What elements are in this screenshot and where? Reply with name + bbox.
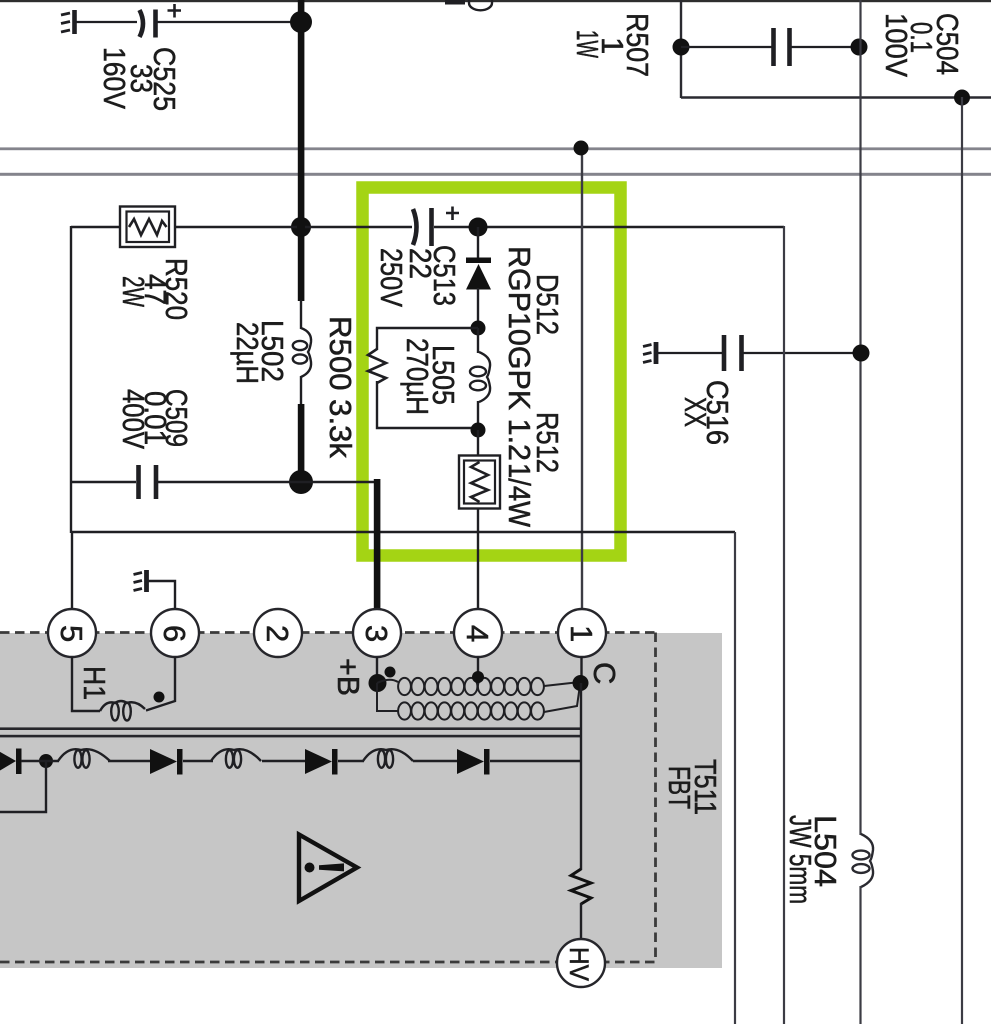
svg-text:R500 3.3k: R500 3.3k — [323, 316, 358, 458]
junction node (478,328) — [471, 321, 486, 336]
wire thin above L502 — [300, 300, 302, 329]
core line 2 — [0, 735, 581, 738]
vertical line x859 lower — [859, 886, 861, 1024]
FBT dashed border right — [654, 633, 657, 963]
junction node (859,47) — [851, 39, 868, 56]
pin circle 6 — [151, 609, 199, 657]
wire chain seg1 — [21, 760, 59, 762]
pin circle 4 — [454, 609, 502, 657]
wire node to D512 — [477, 227, 479, 259]
svg-text:R50711W: R50711W — [570, 13, 655, 77]
junction node (301,482) — [289, 470, 313, 494]
svg-text:6: 6 — [157, 625, 192, 642]
pin circle 3 — [353, 609, 401, 657]
winding polarity dot (H1) — [154, 692, 165, 703]
warning triangle — [299, 835, 357, 902]
wire chain seg6 — [413, 760, 458, 762]
HV series resistor zigzag — [571, 869, 591, 904]
svg-text:L505270µH: L505270µH — [400, 338, 461, 415]
highlight box (green) — [363, 188, 621, 556]
junction node (301,22) — [290, 11, 312, 33]
wire y227 left of R520 — [71, 226, 121, 228]
wire y97 — [681, 96, 991, 98]
thick vertical wire x301 upper — [298, 0, 305, 301]
resistor R520 (boxed) — [120, 207, 175, 248]
cropped component at top edge — [445, 0, 465, 5]
wire chain seg7 — [490, 760, 582, 762]
wire capacitor to node — [791, 46, 859, 48]
label C525 33 160V — [97, 47, 182, 111]
winding H1 wires — [72, 657, 175, 711]
pin circle 2 — [254, 609, 302, 657]
pin circle 1 — [558, 609, 606, 657]
horizontal bus line 1 — [0, 147, 991, 150]
label R512 1/4W — [502, 412, 565, 528]
wire tap down to left edge — [0, 761, 46, 812]
ground (C516) — [643, 342, 656, 364]
wire resistor to HV terminal — [580, 903, 582, 940]
svg-text:C51322250V: C51322250V — [374, 245, 462, 307]
wire y227 R520 to node — [175, 226, 297, 228]
capacitor (top right) — [774, 28, 790, 66]
svg-text:1: 1 — [564, 625, 599, 642]
label C509 0.01 400V — [116, 389, 194, 449]
diode D512 — [466, 258, 491, 290]
junction node (582,148) — [574, 141, 589, 156]
wire node to capacitor — [681, 46, 772, 48]
wire y482 node to +B bar — [301, 481, 378, 483]
top border wire — [0, 0, 991, 2]
wire pin1 to node — [580, 657, 582, 683]
wire pin5 riser — [71, 532, 73, 610]
wire y482 C509 to node — [158, 481, 301, 483]
svg-text:L504JW 5mm: L504JW 5mm — [783, 815, 843, 904]
label C516 XX — [678, 380, 735, 445]
svg-text:HV: HV — [564, 947, 594, 981]
label R507 1 1W — [570, 13, 655, 77]
label C504 0.1 100V — [879, 13, 965, 77]
wire y532 — [71, 531, 735, 533]
svg-text:L50222µH: L50222µH — [230, 320, 290, 384]
thick wire +B to pin 3 — [374, 479, 381, 610]
svg-text:3: 3 — [359, 625, 394, 642]
junction node (681,47) — [673, 39, 690, 56]
thick vertical wire x301 lower — [298, 404, 305, 483]
secondary diode 3 — [305, 749, 338, 775]
FBT dashed border top — [0, 631, 656, 634]
pin circle 5 — [48, 609, 96, 657]
core line 1 — [0, 727, 581, 730]
label C513 22 250V — [374, 245, 462, 307]
svg-text:C5040.1100V: C5040.1100V — [879, 13, 965, 77]
HV terminal circle — [557, 939, 605, 987]
secondary coil 1 — [58, 749, 110, 768]
junction node (962,97) — [954, 90, 970, 106]
wire thin below L502 — [300, 376, 302, 405]
label L504 JW 5mm — [783, 815, 843, 904]
horizontal bus line 2 — [0, 173, 991, 176]
label R500 3.3k — [323, 316, 358, 458]
primary winding row 1 — [377, 678, 580, 695]
winding polarity dot (primary) — [385, 667, 396, 678]
secondary diode (partial, left edge) — [0, 749, 22, 775]
winding H1 coil — [100, 701, 145, 721]
transformer T511 body gray fill — [0, 633, 722, 968]
wire pin3 to winding node — [376, 657, 378, 683]
inductor L505 coil — [470, 328, 490, 430]
inductor L502 coil — [293, 328, 311, 377]
junction node (478,677) — [472, 671, 484, 683]
svg-text:4: 4 — [460, 625, 495, 642]
label L502 22uH — [230, 320, 290, 384]
wire ground to C516 — [657, 352, 722, 354]
vertical line x784 — [783, 226, 785, 1024]
left vertical wire x71 — [70, 226, 72, 533]
svg-text:H1: H1 — [77, 666, 112, 700]
secondary diode 2 — [150, 749, 183, 775]
wire R512 to pin 4 — [477, 509, 479, 610]
wire D512 to node — [477, 288, 479, 329]
junction node (580,683) — [573, 675, 589, 691]
label L505 270uH — [400, 338, 461, 415]
HV line from winding node — [580, 683, 582, 870]
junction node (301,227) — [291, 217, 311, 237]
capacitor C509 — [139, 465, 157, 499]
svg-text:T511FBT: T511FBT — [662, 759, 723, 815]
label HV — [564, 947, 594, 981]
wire C525 to node — [157, 21, 299, 23]
wire C516 to node — [743, 352, 861, 354]
wire chain seg4 — [262, 760, 306, 762]
wire y482 left — [71, 481, 136, 483]
vertical line x859 upper — [859, 0, 861, 835]
label R520 47 2W — [116, 258, 194, 320]
svg-text:5: 5 — [54, 625, 89, 642]
vertical line x735 — [734, 532, 736, 1024]
junction node (861,353) — [853, 345, 870, 362]
wire chain seg2 — [108, 760, 151, 762]
vertical wire x681 — [680, 0, 682, 98]
capacitor C525 (polarized) — [140, 4, 182, 38]
inductor L504 coil — [853, 834, 874, 887]
vertical wire x582 bus to pin 1 — [581, 148, 583, 610]
ground (top left) — [61, 10, 75, 34]
ground (pin 6) — [134, 570, 147, 592]
vertical line x962 — [961, 97, 963, 1024]
label T511 FBT — [662, 759, 723, 815]
wire y227 node to C513 — [305, 226, 412, 228]
damping resistor zigzag — [368, 349, 386, 383]
svg-text:C5090.01400V: C5090.01400V — [116, 389, 194, 449]
wire y227 C513 to x784 corner — [434, 226, 784, 228]
wire ground to C525 — [76, 21, 137, 23]
svg-text:2: 2 — [260, 625, 295, 642]
warning exclamation — [305, 863, 315, 873]
junction node (478,227) — [469, 218, 488, 237]
svg-text:C52533160V: C52533160V — [97, 47, 182, 111]
junction node (478,430) — [471, 423, 486, 438]
primary winding row 2 — [377, 683, 580, 720]
wire pin4 tap — [477, 657, 479, 676]
resistor R512 (boxed) — [459, 456, 500, 509]
svg-text:+B: +B — [331, 658, 366, 696]
label H1 — [77, 666, 112, 700]
svg-text:C516XX: C516XX — [678, 380, 735, 445]
wire node to R512 — [477, 430, 479, 456]
label +B — [331, 658, 366, 696]
junction node (377,683) — [369, 674, 387, 692]
svg-text:R520472W: R520472W — [116, 258, 194, 320]
junction node (46,761) — [39, 754, 53, 768]
wire chain seg5 — [338, 760, 364, 762]
FBT dashed border bottom — [0, 961, 656, 964]
secondary coil 2 — [211, 749, 261, 768]
wire ground to pin 6 — [148, 581, 175, 610]
svg-text:C: C — [587, 662, 622, 684]
capacitor C513 (polarized) — [413, 207, 459, 247]
secondary coil 3 — [363, 749, 413, 768]
capacitor C516 — [724, 335, 742, 371]
parallel damping resistor branch wires — [377, 328, 478, 428]
secondary diode 4 — [457, 749, 490, 775]
wire chain seg3 — [183, 760, 213, 762]
label D512 RGP10GPK 1.2 — [502, 246, 565, 461]
label C — [587, 662, 622, 684]
